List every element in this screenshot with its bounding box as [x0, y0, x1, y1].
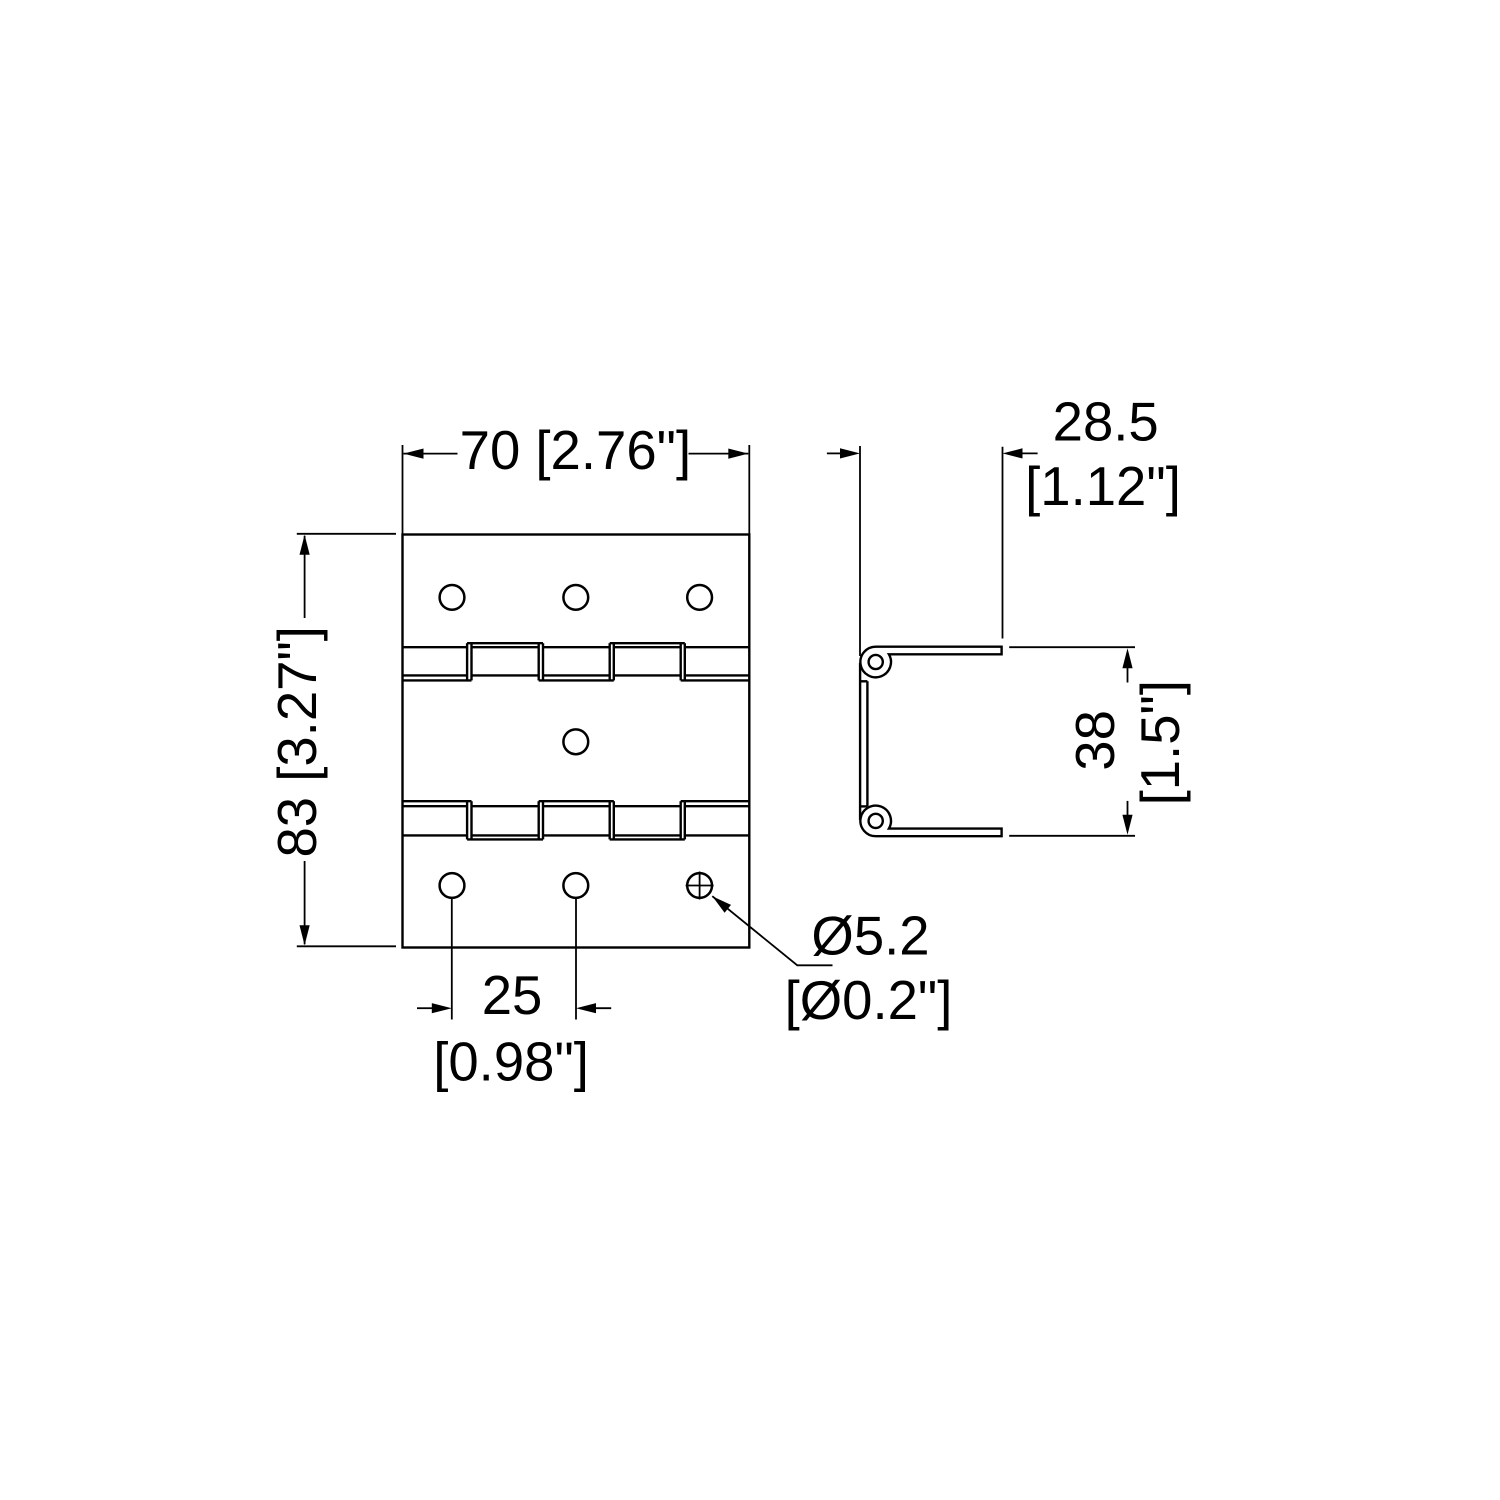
knuckle band A tab outer tops — [467, 642, 685, 644]
dimension 25 extension lines — [451, 899, 453, 1020]
knuckle band B inner lines — [403, 806, 750, 835]
screw hole bottom-left — [440, 873, 465, 898]
svg-text:38: 38 — [1065, 710, 1126, 771]
svg-text:28.5: 28.5 — [1053, 391, 1159, 452]
dimension 38 arrowheads — [1122, 648, 1132, 668]
screw hole top-right — [687, 585, 712, 610]
side view top leaf with curl — [860, 647, 1001, 678]
knuckle band A inner lines — [403, 647, 750, 675]
dimension 70 line — [404, 453, 458, 455]
svg-text:[0.98"]: [0.98"] — [433, 1032, 589, 1093]
dimension 28.5 tails — [827, 452, 841, 454]
svg-text:70 [2.76"]: 70 [2.76"] — [460, 420, 691, 481]
dimension 70 arrowheads — [404, 449, 424, 459]
side view top pin — [869, 655, 883, 669]
dimension 83 arrowheads — [300, 535, 310, 555]
knuckle band A gap verticals — [467, 643, 685, 680]
knuckle band B tab outer bottoms — [467, 838, 685, 840]
dimension 83 extension lines — [297, 533, 396, 535]
leader arrow for hole diameter — [712, 896, 832, 965]
svg-text:[Ø0.2"]: [Ø0.2"] — [785, 970, 953, 1031]
screw hole bottom-right with crosshair — [687, 873, 712, 898]
dimension 38 extension lines — [1009, 646, 1135, 648]
dimension 25 tails — [417, 1007, 433, 1009]
dimension 28.5 extension lines — [859, 446, 861, 656]
screw hole bottom-middle — [563, 873, 588, 898]
dimension 83 line — [304, 536, 306, 618]
hinge plate outline (front view) — [403, 535, 750, 948]
svg-text:[1.12"]: [1.12"] — [1025, 456, 1181, 517]
dimension 28.5 arrowheads — [840, 448, 860, 458]
screw hole center — [563, 729, 588, 754]
dimension 70 extension lines — [402, 445, 404, 535]
knuckle band A segment outer bottoms — [403, 679, 750, 681]
svg-text:[1.5"]: [1.5"] — [1130, 680, 1191, 805]
dimension 25 arrowheads — [432, 1003, 452, 1013]
svg-text:Ø5.2: Ø5.2 — [811, 906, 929, 967]
dimension 38 shafts — [1127, 667, 1129, 683]
svg-text:83 [3.27"]: 83 [3.27"] — [267, 626, 328, 857]
side view bottom pin — [869, 814, 883, 828]
side view bottom leaf with curl — [860, 806, 1001, 837]
side view middle leaf — [859, 663, 861, 820]
screw hole top-middle — [563, 585, 588, 610]
svg-text:25: 25 — [482, 965, 543, 1026]
knuckle band B gap verticals — [467, 801, 685, 839]
screw hole top-left — [440, 585, 465, 610]
knuckle band B segment outer tops — [403, 800, 750, 802]
